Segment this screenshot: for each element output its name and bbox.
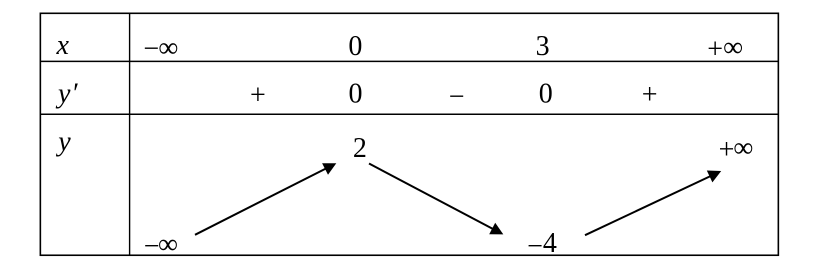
svg-text:3: 3 (536, 31, 550, 62)
row divider 2 (40, 113, 778, 115)
svg-text:+: + (250, 80, 266, 111)
svg-text:x: x (56, 30, 70, 61)
arrow falling middle (line) (369, 164, 498, 232)
svg-text:−: − (143, 33, 159, 64)
svg-text:+: + (707, 34, 723, 65)
arrow rising left (head) (322, 163, 336, 175)
arrow rising right (line) (585, 174, 716, 236)
svg-text:+: + (642, 80, 658, 111)
svg-text:y: y (55, 126, 71, 157)
column divider (129, 13, 131, 255)
row divider 1 (40, 60, 778, 62)
svg-text:0: 0 (348, 31, 362, 62)
svg-text:∞: ∞ (733, 133, 753, 164)
svg-text:′: ′ (71, 78, 78, 109)
arrow falling middle (head) (489, 223, 503, 235)
y min value -4 (527, 228, 557, 262)
y limit -infinity (bottom left) (144, 229, 178, 262)
svg-text:∞: ∞ (158, 229, 178, 260)
svg-text:−: − (449, 81, 465, 112)
y limit +infinity (top right) (719, 133, 754, 166)
arrow rising right (head) (707, 171, 721, 183)
svg-text:4: 4 (543, 228, 557, 259)
svg-text:y: y (55, 78, 71, 109)
arrow rising left (line) (195, 166, 331, 235)
svg-text:0: 0 (349, 78, 363, 109)
svg-text:2: 2 (353, 133, 367, 164)
svg-text:∞: ∞ (723, 32, 743, 63)
svg-text:+: + (719, 134, 735, 165)
svg-text:0: 0 (539, 78, 553, 109)
header label y' (55, 78, 78, 109)
x value -infinity (143, 33, 178, 65)
svg-text:−: − (527, 231, 543, 262)
x value +infinity (707, 32, 743, 65)
svg-text:∞: ∞ (158, 33, 178, 64)
